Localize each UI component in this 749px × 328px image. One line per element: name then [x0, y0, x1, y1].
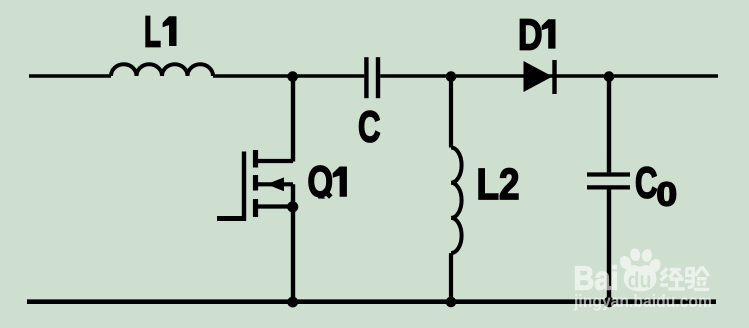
- svg-text:C: C: [358, 103, 381, 151]
- svg-text:0: 0: [657, 176, 678, 213]
- svg-text:L2: L2: [477, 161, 520, 209]
- svg-text:C: C: [635, 159, 658, 207]
- svg-text:jingyan.baidu.com: jingyan.baidu.com: [573, 291, 712, 311]
- svg-text:du: du: [628, 267, 652, 292]
- svg-text:L: L: [144, 9, 161, 57]
- svg-text:D: D: [518, 11, 543, 59]
